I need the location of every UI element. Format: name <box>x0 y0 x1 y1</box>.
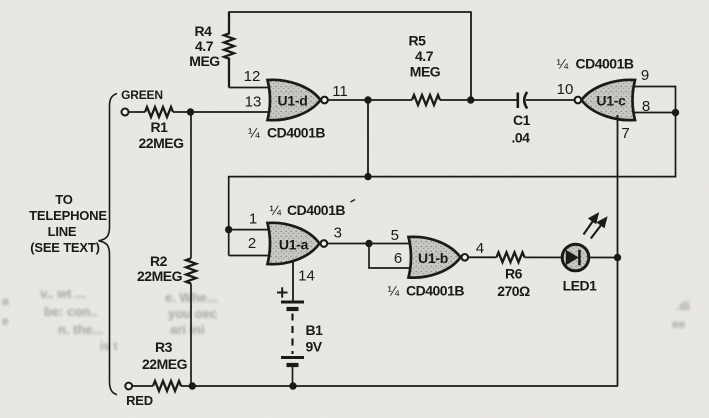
wire R4 to U1-d pin 12 <box>229 87 269 89</box>
wire RED to R3 <box>132 385 153 387</box>
wire top feedback rail <box>229 12 471 100</box>
svg-text:10: 10 <box>557 81 574 98</box>
svg-text:LED1: LED1 <box>563 278 598 294</box>
svg-text:n. the...: n. the... <box>58 322 104 337</box>
LED LED1 <box>562 244 589 271</box>
svg-text:CD4001B: CD4001B <box>287 202 345 218</box>
terminal RED <box>125 383 132 390</box>
svg-text:13: 13 <box>245 94 262 111</box>
svg-text:CD4001B: CD4001B <box>576 56 634 72</box>
svg-text:5: 5 <box>391 227 399 244</box>
brace to telephone line <box>99 94 118 395</box>
wire R5 to C1 <box>440 99 517 101</box>
label R5 value <box>409 33 441 80</box>
svg-text:7: 7 <box>621 125 629 142</box>
svg-text:4.7: 4.7 <box>415 48 434 64</box>
svg-text:4.7: 4.7 <box>195 38 214 54</box>
svg-text:11: 11 <box>332 83 348 100</box>
svg-text:22MEG: 22MEG <box>137 268 183 284</box>
wire U1-b pin 6 loop <box>369 244 410 269</box>
junction LED cathode <box>614 254 621 261</box>
ghost show-through text lower left <box>2 286 690 353</box>
bubble U1-d output <box>321 97 328 104</box>
svg-text:GREEN: GREEN <box>121 88 163 102</box>
terminal GREEN <box>122 109 129 116</box>
junction pins 8-9 <box>672 109 679 116</box>
svg-text:6: 6 <box>394 250 402 267</box>
svg-text:.04: .04 <box>512 130 531 146</box>
svg-text:4: 4 <box>476 240 484 257</box>
wire U1-d output to R5 <box>328 99 412 101</box>
capacitor C1 <box>518 92 527 109</box>
label B1 value <box>306 322 324 355</box>
stray tick <box>351 200 356 203</box>
wire R6 to LED1 <box>525 256 618 258</box>
svg-text:be: con..: be: con.. <box>44 304 97 319</box>
label C1 value <box>512 112 531 146</box>
op-amp U1-c (NOR gate, mirrored) <box>582 80 636 120</box>
svg-text:9V: 9V <box>306 339 323 355</box>
op-amp U1-a (NOR gate) <box>268 223 320 264</box>
svg-text:¼: ¼ <box>388 283 400 299</box>
junction U1-b input <box>365 240 372 247</box>
junction top rail <box>467 96 474 103</box>
battery plus sign <box>277 287 288 297</box>
wire bottom rail <box>181 385 618 387</box>
wire U1-b output to R6 <box>468 256 496 258</box>
svg-text:.di: .di <box>676 299 690 313</box>
bubble U1-b output <box>462 254 469 261</box>
svg-text:CD4001B: CD4001B <box>267 125 325 141</box>
wire U1-c pin 7 down to LED node <box>617 115 619 258</box>
svg-text:9: 9 <box>641 67 649 84</box>
resistor R3 <box>153 381 181 391</box>
wire U1-a pin 14 to battery <box>292 262 294 303</box>
resistor R4 <box>224 12 234 88</box>
label R2 value <box>137 253 183 284</box>
svg-text:R5: R5 <box>409 33 427 49</box>
svg-text:U1-a: U1-a <box>279 237 309 253</box>
svg-text:2: 2 <box>248 235 256 252</box>
junction R1 node <box>187 108 194 115</box>
junction feedback <box>364 173 371 180</box>
junction node pin11 <box>364 96 371 103</box>
label R1 value <box>139 119 185 151</box>
svg-text:ee: ee <box>672 317 686 331</box>
svg-text:¼: ¼ <box>248 125 260 141</box>
svg-text:ari ini: ari ini <box>170 322 205 337</box>
svg-text:B1: B1 <box>306 322 324 338</box>
wire R1 to U1-d pin 13 <box>173 111 269 113</box>
svg-text:TELEPHONE: TELEPHONE <box>29 208 107 223</box>
svg-text:e: e <box>2 314 9 328</box>
svg-text:3: 3 <box>334 225 342 242</box>
wire left rail down <box>190 112 192 386</box>
op-amp U1-b (NOR gate) <box>409 237 461 278</box>
wire LED node to bottom rail <box>617 258 619 387</box>
svg-text:R3: R3 <box>155 339 173 355</box>
svg-text:¼: ¼ <box>270 202 282 218</box>
LED arrows <box>584 214 607 238</box>
label R4 value <box>189 23 220 69</box>
resistor R6 <box>497 252 525 262</box>
wire pin11 node down to feedback <box>367 100 369 177</box>
op-amp U1-d (NOR gate) <box>268 80 321 120</box>
wire feedback rail to U1-a inputs <box>229 113 676 256</box>
wire U1-a output to U1-b pin 5 <box>327 243 410 245</box>
svg-text:¼: ¼ <box>557 56 569 72</box>
label TO TELEPHONE LINE (SEE TEXT) <box>29 192 107 255</box>
resistor R1 <box>145 107 173 117</box>
wire C1 to U1-c input <box>526 99 575 101</box>
svg-text:C1: C1 <box>513 112 531 128</box>
wire U1-c pin 9 loop <box>633 87 676 113</box>
svg-text:U1-b: U1-b <box>418 250 448 266</box>
svg-text:LINE: LINE <box>48 224 77 239</box>
svg-text:12: 12 <box>244 68 261 85</box>
svg-text:is t: is t <box>100 339 117 353</box>
wire U1-a pin 1 <box>229 229 269 231</box>
svg-text:1: 1 <box>249 211 257 228</box>
bubble U1-c output <box>575 97 582 104</box>
bubble U1-a output <box>321 240 328 247</box>
svg-text:R1: R1 <box>151 119 169 135</box>
svg-text:v.. wt ...: v.. wt ... <box>40 286 86 301</box>
wire GREEN to R1 <box>129 111 145 113</box>
svg-text:(SEE TEXT): (SEE TEXT) <box>30 240 100 255</box>
wire U1-a pin 2 <box>229 255 269 257</box>
label R6 value <box>497 266 530 300</box>
svg-text:a: a <box>2 294 9 308</box>
junction bottom-left <box>189 382 196 389</box>
svg-text:270Ω: 270Ω <box>497 283 530 299</box>
svg-text:U1-d: U1-d <box>278 93 308 109</box>
svg-text:CD4001B: CD4001B <box>406 283 464 299</box>
svg-text:U1-c: U1-c <box>596 93 626 109</box>
resistor R5 <box>412 95 440 105</box>
svg-text:RED: RED <box>126 393 153 408</box>
svg-text:R2: R2 <box>150 253 168 269</box>
svg-text:you oec: you oec <box>168 306 217 321</box>
svg-text:MEG: MEG <box>189 53 220 69</box>
junction battery negative <box>289 382 296 389</box>
svg-text:22MEG: 22MEG <box>142 356 188 372</box>
battery B1 <box>281 302 304 386</box>
svg-text:22MEG: 22MEG <box>139 135 185 151</box>
svg-text:R4: R4 <box>195 23 213 39</box>
svg-text:MEG: MEG <box>410 64 441 80</box>
label R3 value <box>142 339 188 372</box>
resistor R2 <box>186 258 196 283</box>
junction U1-a input <box>225 226 232 233</box>
svg-text:14: 14 <box>298 268 315 285</box>
svg-text:R6: R6 <box>505 266 523 282</box>
svg-text:8: 8 <box>642 98 650 115</box>
svg-text:TO: TO <box>55 192 73 207</box>
